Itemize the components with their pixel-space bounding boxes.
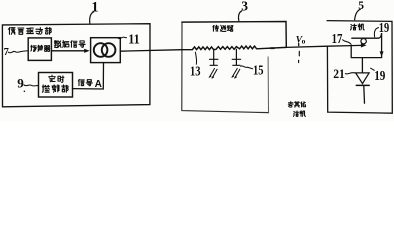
leader for 7 <box>8 51 28 53</box>
svg-text:9: 9 <box>17 75 24 90</box>
telephone set box label <box>351 24 357 30</box>
diode cathode lead <box>363 86 366 103</box>
diode anode lead <box>361 58 363 73</box>
leader for 17 <box>343 40 352 45</box>
leader for 21 <box>345 73 355 74</box>
scan speckle on wire <box>270 47 276 49</box>
label: signal A <box>78 80 84 86</box>
switch: fixed bar <box>352 34 382 39</box>
leader for 15 <box>241 66 253 69</box>
transmission line box label <box>213 25 219 31</box>
diode 21 triangle <box>356 73 370 84</box>
svg-text:13: 13 <box>190 64 201 79</box>
leader for 5 <box>355 9 361 20</box>
box 3: transmission line outline <box>182 22 286 47</box>
oscillator box 7 <box>28 38 51 61</box>
timing control box 9 <box>39 73 73 98</box>
diode cathode bar <box>356 84 369 86</box>
svg-text:5: 5 <box>358 0 364 12</box>
svg-text:21: 21 <box>333 66 345 81</box>
leader for 9 <box>24 85 39 86</box>
svg-text:1: 1 <box>91 0 98 16</box>
leader for top 19 <box>374 28 378 37</box>
leader for 1 <box>90 12 94 23</box>
scan speckle <box>24 91 26 93</box>
wire: oscillator to transformer with arrow (data signal) <box>51 50 85 52</box>
leader for 11 <box>119 37 127 39</box>
box label: speech drive section title <box>8 28 15 35</box>
node Vo tick <box>298 43 300 45</box>
svg-text:19: 19 <box>379 20 390 35</box>
transformer coil circles <box>94 43 108 57</box>
ground hatching <box>209 69 217 79</box>
transformer box 11 <box>91 38 121 63</box>
svg-text:3: 3 <box>241 0 248 14</box>
svg-text:7: 7 <box>4 47 9 58</box>
svg-text:17: 17 <box>332 31 343 46</box>
wire: signal A path from control box to transformer <box>73 63 104 89</box>
box 5: telephone set outline <box>327 21 392 114</box>
svg-text:11: 11 <box>128 33 140 48</box>
label: to other telephone sets <box>288 102 293 107</box>
label: data signal <box>54 41 61 48</box>
svg-text:19: 19 <box>374 69 385 84</box>
oscillator box label <box>31 45 36 51</box>
wire: vertical drop with down arrow <box>381 34 383 58</box>
timing control box label <box>49 75 55 82</box>
wire: transformer out to transmission line box <box>120 50 182 52</box>
shunt capacitor at x=213.7 <box>210 50 218 66</box>
leader for 3 <box>238 11 241 21</box>
svg-text:A: A <box>95 79 102 90</box>
shunt capacitor at x=236.4 <box>232 49 240 65</box>
bus wire at bottom of switch <box>351 46 381 58</box>
leader for mid 19 <box>371 68 375 70</box>
ladder main line with coils <box>182 46 286 50</box>
box 1: speech drive section outline <box>2 24 150 107</box>
ground hatching <box>232 69 240 79</box>
leader for 13 <box>195 52 196 64</box>
dashed stub to other telephone sets <box>298 51 301 62</box>
svg-text:o: o <box>302 37 306 46</box>
svg-text:15: 15 <box>253 62 264 77</box>
switch contact circle <box>361 39 366 44</box>
